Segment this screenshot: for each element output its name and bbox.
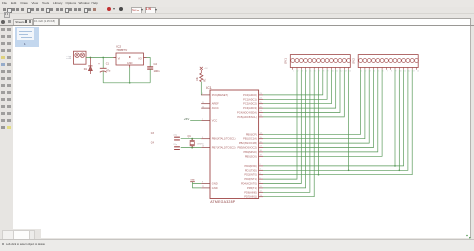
svg-text:C2: C2 <box>153 62 157 66</box>
wire PD5 net <box>263 69 306 187</box>
svg-text:PB3(MOSI/OC2): PB3(MOSI/OC2) <box>237 145 256 149</box>
svg-text:PD7(AIN1): PD7(AIN1) <box>244 194 257 198</box>
connector SV1 <box>283 54 351 72</box>
svg-text:3: 3 <box>369 70 370 72</box>
wire PD2 net <box>263 69 412 174</box>
svg-text:PC0(ADC0): PC0(ADC0) <box>243 92 257 96</box>
wire SV2-9 branch to PD0 <box>394 69 396 165</box>
svg-text:VO: VO <box>138 57 142 60</box>
svg-text:2 1: 2 1 <box>66 55 69 59</box>
svg-text:10: 10 <box>399 70 401 72</box>
node junction <box>398 169 400 171</box>
svg-text:3: 3 <box>301 70 302 72</box>
svg-text:2: 2 <box>365 70 366 72</box>
wire SV1-14 branch to PD1 <box>347 69 349 170</box>
svg-text:14: 14 <box>416 70 418 72</box>
svg-text:+5V: +5V <box>203 67 207 69</box>
node junction <box>347 169 349 171</box>
svg-text:PD5(T1): PD5(T1) <box>246 185 256 189</box>
svg-text:GND: GND <box>211 181 217 185</box>
svg-text:Q1: Q1 <box>187 135 191 138</box>
svg-text:13: 13 <box>344 70 346 72</box>
wire PD6 net <box>263 69 310 192</box>
svg-text:10k: 10k <box>196 76 198 81</box>
capacitor C2 100n <box>147 62 160 83</box>
wire PB2 net <box>263 69 369 142</box>
wire PD1 net <box>263 69 408 170</box>
svg-text:22p: 22p <box>173 143 177 145</box>
svg-text:VI: VI <box>117 57 120 60</box>
node junction XTAL2-crystal <box>191 146 193 148</box>
capacitor C1 47u <box>98 57 111 82</box>
svg-text:9: 9 <box>395 70 396 72</box>
svg-text:PB7(XTAL2/TOSC2): PB7(XTAL2/TOSC2) <box>211 145 235 149</box>
IC IC1 ATMEGA328P box <box>206 85 258 203</box>
ground symbol GND for IC <box>190 179 201 187</box>
svg-text:2: 2 <box>297 70 298 72</box>
wire PD7 net <box>263 69 314 196</box>
svg-text:8: 8 <box>391 70 392 72</box>
node junction gnd rail <box>128 81 130 83</box>
diode D1 <box>83 57 92 74</box>
svg-text:PB5(SCK): PB5(SCK) <box>244 154 256 158</box>
svg-text:47u: 47u <box>106 69 111 72</box>
svg-text:PC4(ADC4/SDA): PC4(ADC4/SDA) <box>237 110 257 114</box>
svg-text:22p: 22p <box>173 134 177 136</box>
wire PC0 net <box>263 69 323 94</box>
svg-text:4: 4 <box>373 70 374 72</box>
node junction <box>394 165 396 167</box>
svg-text:5: 5 <box>378 70 379 72</box>
svg-text:PD6(AIN0): PD6(AIN0) <box>244 190 257 194</box>
svg-text:AVCC: AVCC <box>211 106 218 110</box>
svg-text:100n: 100n <box>153 68 159 72</box>
svg-text:PD1(TXD): PD1(TXD) <box>244 168 256 172</box>
svg-text:PB6(XTAL1/TOSC1): PB6(XTAL1/TOSC1) <box>211 136 235 140</box>
svg-text:GND: GND <box>126 61 132 64</box>
wire PD4 net <box>263 69 301 183</box>
node junction <box>317 173 319 175</box>
svg-text:PB0(ICP): PB0(ICP) <box>245 132 256 136</box>
wire PB4 net <box>263 69 378 151</box>
svg-text:PC2(ADC2): PC2(ADC2) <box>243 101 257 105</box>
svg-text:PD3(INT1): PD3(INT1) <box>244 177 257 181</box>
svg-text:PB2(SS/OC1B): PB2(SS/OC1B) <box>238 141 256 145</box>
wire PC4 net <box>263 69 340 112</box>
crystal Q1 <box>187 135 203 147</box>
svg-text:11: 11 <box>336 70 338 72</box>
wire PC1 net <box>263 69 327 99</box>
svg-text:+: + <box>98 61 100 65</box>
svg-text:PD4(XCK/T0): PD4(XCK/T0) <box>240 181 256 185</box>
svg-text:GND: GND <box>190 179 195 181</box>
wire PC3 net <box>263 69 336 107</box>
wire PB3 net <box>263 69 374 147</box>
svg-text:14: 14 <box>349 70 351 72</box>
wire PD3 net <box>263 69 297 178</box>
origin marker dots bottom-right <box>466 234 468 236</box>
wire PD0 net <box>263 69 404 165</box>
svg-text:8: 8 <box>323 70 324 72</box>
svg-text:C1: C1 <box>105 62 109 65</box>
wire SV1-7 branch to PD2 <box>317 69 319 174</box>
IC left pins <box>201 92 235 189</box>
svg-text:10: 10 <box>331 70 333 72</box>
wire regulator GND <box>128 67 130 82</box>
svg-text:PB1(OC1A): PB1(OC1A) <box>243 136 257 140</box>
resistor R1 10k <box>196 73 206 82</box>
svg-text:PB4(MISO): PB4(MISO) <box>243 149 256 153</box>
svg-text:PC5(ADC5/SCL): PC5(ADC5/SCL) <box>237 114 257 118</box>
voltage regulator IC2 7805TV <box>113 44 146 67</box>
wire VCC +5V net <box>190 119 201 121</box>
svg-text:13: 13 <box>412 70 414 72</box>
wire reset net <box>200 81 202 94</box>
svg-text:PC6(/RESET): PC6(/RESET) <box>211 92 227 96</box>
svg-text:PC1(ADC1): PC1(ADC1) <box>243 97 257 101</box>
capacitor C4 22p <box>150 141 179 149</box>
wire PB5 net <box>263 69 382 156</box>
svg-text:SV1: SV1 <box>283 57 287 63</box>
supply +5V symbol <box>199 66 207 72</box>
node junction C1 tap <box>102 56 104 58</box>
wire PC2 net <box>263 69 331 103</box>
svg-text:D1: D1 <box>83 67 87 70</box>
wire PC5 net <box>263 69 344 116</box>
wire ground rail <box>103 81 150 83</box>
svg-text:11: 11 <box>404 70 406 72</box>
wire XTAL2 net <box>180 146 201 148</box>
svg-text:6: 6 <box>314 70 315 72</box>
svg-text:12: 12 <box>408 70 410 72</box>
svg-text:SV2: SV2 <box>351 57 355 63</box>
connector X1 <box>66 51 86 64</box>
node junction XTAL1-crystal <box>191 137 193 139</box>
svg-text:7805TV: 7805TV <box>116 48 128 52</box>
svg-text:PD0(RXD): PD0(RXD) <box>244 163 256 167</box>
svg-text:PD2(INT0): PD2(INT0) <box>244 172 257 176</box>
svg-text:4: 4 <box>306 70 307 72</box>
svg-text:7: 7 <box>386 70 387 72</box>
svg-text:VCC: VCC <box>211 118 217 122</box>
wire PB1 net <box>263 69 365 138</box>
wire +5V output <box>146 57 150 66</box>
node junction diode tap <box>89 56 91 58</box>
svg-text:12: 12 <box>340 70 342 72</box>
svg-text:1: 1 <box>361 70 362 72</box>
svg-text:ATMEGA328P: ATMEGA328P <box>210 199 236 203</box>
wire PB0 net <box>263 69 361 134</box>
connector SV2 <box>351 54 419 72</box>
IC right pins <box>237 92 263 198</box>
svg-text:7: 7 <box>318 70 319 72</box>
svg-text:9: 9 <box>327 70 328 72</box>
svg-text:R1: R1 <box>204 77 206 81</box>
svg-text:1: 1 <box>293 70 294 72</box>
svg-text:C3: C3 <box>150 132 154 135</box>
svg-text:GND: GND <box>211 185 217 189</box>
svg-text:5: 5 <box>310 70 311 72</box>
svg-text:PC3(ADC3): PC3(ADC3) <box>243 106 257 110</box>
wire SV2-10 branch to PD1 <box>398 69 400 170</box>
svg-text:IC1: IC1 <box>206 85 212 89</box>
capacitor C3 22p <box>150 132 179 140</box>
svg-text:6: 6 <box>382 70 383 72</box>
svg-text:AREF: AREF <box>211 101 218 105</box>
wire XTAL1 net <box>180 137 201 139</box>
svg-text:C4: C4 <box>150 141 154 144</box>
svg-text:+5V: +5V <box>183 116 190 120</box>
wire VIN net <box>86 56 113 58</box>
